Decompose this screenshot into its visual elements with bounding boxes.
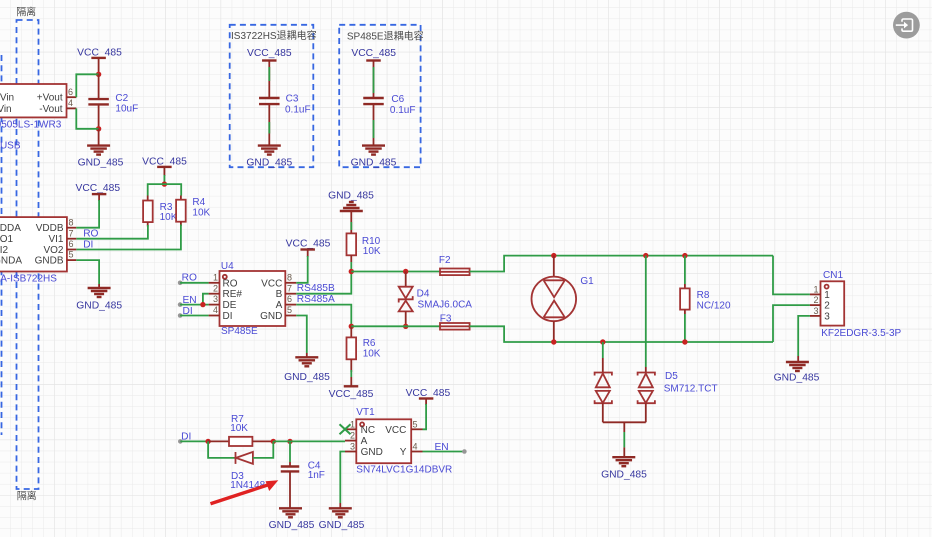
svg-text:VO2: VO2: [43, 245, 63, 256]
connector CN1 KF2EDGR-3.5-3P: [821, 270, 902, 339]
resistor R10: [347, 211, 381, 262]
wire F3 to bottom bus: [470, 326, 773, 342]
svg-text:3: 3: [350, 442, 355, 452]
wire C6 to ground: [373, 104, 375, 146]
svg-text:R6: R6: [363, 338, 376, 349]
B0505 pin 6 +Vout: [67, 87, 77, 97]
label 隔离 top: [16, 6, 36, 19]
fuse F3: [440, 314, 470, 330]
svg-text:1N4148: 1N4148: [230, 480, 265, 491]
label USB: [0, 141, 21, 152]
junction EN tie: [200, 302, 205, 307]
svg-text:GND_485: GND_485: [601, 470, 647, 481]
svg-text:D5: D5: [665, 371, 678, 382]
svg-text:GND: GND: [361, 447, 383, 458]
transceiver U4 SP485E: [220, 261, 286, 337]
junction D4 bottom: [403, 324, 408, 329]
junction D5 right chain top: [643, 253, 648, 258]
svg-text:10K: 10K: [363, 349, 381, 360]
svg-text:2: 2: [824, 301, 830, 312]
wire VCC to C3: [268, 66, 270, 98]
label SP485E退耦电容: [347, 30, 424, 43]
svg-text:10K: 10K: [192, 207, 210, 218]
capacitor C6: [363, 94, 415, 116]
svg-text:GNDB: GNDB: [35, 256, 64, 267]
wire U4 B to RS485B: [296, 272, 351, 294]
svg-text:DI: DI: [223, 311, 233, 322]
power flag VCC_485 (C6): [351, 48, 396, 66]
isolation boundary dashed box: [17, 20, 39, 489]
svg-text:VCC_485: VCC_485: [329, 389, 374, 400]
svg-text:3: 3: [824, 311, 830, 322]
CN1 pin stubs and numbers: [810, 284, 821, 316]
fuse F2: [439, 255, 470, 275]
svg-text:+Vin: +Vin: [0, 93, 14, 104]
svg-text:8: 8: [69, 217, 74, 227]
dashed box IS3722HS decoupling: [230, 25, 314, 167]
annotation red arrow: [211, 480, 279, 504]
wire R4 bottom to DI net: [76, 225, 181, 250]
power flag VCC_485 (C2): [77, 48, 122, 71]
B0505 pin 4 -Vout: [67, 98, 77, 108]
svg-text:4: 4: [68, 98, 73, 108]
wire RO to U4 pin1: [178, 281, 209, 286]
svg-text:10K: 10K: [160, 212, 178, 223]
TVS array D5 SM712.TCT: [595, 256, 718, 423]
isolator pin 5 GNDB: [67, 250, 76, 260]
svg-text:3: 3: [213, 294, 218, 304]
svg-text:VI1: VI1: [48, 234, 63, 245]
svg-text:GND_485: GND_485: [284, 372, 330, 383]
svg-text:RO: RO: [223, 278, 238, 289]
wire RS485A line: [351, 325, 440, 327]
svg-text:D4: D4: [417, 289, 430, 300]
net label EN (VT1 output): [435, 442, 449, 453]
junction D4 top: [403, 269, 408, 274]
svg-text:A: A: [361, 436, 368, 447]
junction VCC R3 R4: [162, 181, 167, 186]
isolator pin 6 VO2: [67, 239, 76, 249]
svg-text:SN74LVC1G14DBVR: SN74LVC1G14DBVR: [356, 464, 452, 475]
svg-text:VCC: VCC: [385, 425, 406, 436]
junction RS485A R6: [349, 324, 354, 329]
net label DI (isolator): [83, 239, 93, 250]
junction C4 node: [287, 439, 292, 444]
isolator pin 7 VI1: [67, 228, 76, 238]
svg-text:0.1uF: 0.1uF: [285, 104, 311, 115]
svg-text:7: 7: [287, 283, 292, 293]
wire C3 to ground: [268, 104, 270, 146]
svg-text:DI: DI: [83, 239, 93, 250]
wire VT1 Y to EN: [423, 449, 467, 454]
wire F2 to top bus: [470, 256, 773, 272]
partial dashed box left edge: [1, 55, 3, 435]
wire U4 GND pin5: [296, 316, 307, 358]
svg-text:8: 8: [287, 272, 292, 282]
svg-text:GND_485: GND_485: [269, 520, 315, 531]
svg-text:VI2: VI2: [0, 245, 9, 256]
ground GND_485 (C2): [78, 146, 124, 169]
net label RO (U4): [182, 273, 197, 284]
no-connect flag VT1 pin1: [340, 424, 351, 434]
svg-text:4: 4: [213, 305, 218, 315]
svg-text:IS3722HS退耦电容: IS3722HS退耦电容: [231, 29, 317, 42]
svg-text:VCC_485: VCC_485: [247, 48, 292, 59]
ground GND_485 (C4): [269, 508, 315, 531]
svg-text:6: 6: [68, 87, 73, 97]
svg-text:C2: C2: [115, 93, 128, 104]
svg-text:DE: DE: [223, 300, 237, 311]
ground GND_485 (U4): [284, 357, 330, 383]
svg-text:10uF: 10uF: [115, 104, 138, 115]
isolator pin 8 VDDB: [67, 217, 76, 227]
wire VT1 GND pin3 to ground: [340, 452, 345, 509]
svg-text:GND: GND: [260, 311, 282, 322]
inverter VT1 SN74LVC1G14DBVR: [356, 407, 452, 475]
wire DI to U4 pin4: [178, 313, 209, 318]
ground GND_485 (D5): [601, 457, 647, 480]
svg-text:1: 1: [813, 284, 818, 294]
resistor R8: [680, 256, 731, 342]
svg-text:GND_485: GND_485: [246, 158, 292, 169]
U4 pin numbers right 8 7 6 5: [285, 272, 296, 315]
wire R3 bottom to RO net: [76, 225, 148, 239]
svg-text:VCC_485: VCC_485: [75, 183, 120, 194]
wire bottom bus to CN1 pin2: [773, 305, 810, 342]
svg-text:GND_485: GND_485: [774, 372, 820, 383]
svg-text:+Vout: +Vout: [37, 93, 63, 104]
svg-text:7: 7: [69, 228, 74, 238]
resistor R4: [176, 196, 210, 227]
svg-text:RS485B: RS485B: [297, 283, 335, 294]
junction R8 bottom: [682, 339, 687, 344]
net label DI (bottom): [181, 431, 191, 442]
wire R7 to VT1 A: [273, 440, 345, 442]
svg-text:GND_485: GND_485: [76, 301, 122, 312]
svg-text:5: 5: [287, 305, 292, 315]
svg-text:5: 5: [413, 419, 418, 429]
svg-text:0.1uF: 0.1uF: [390, 105, 416, 116]
junction R7 left: [205, 439, 210, 444]
svg-text:VDDA: VDDA: [0, 223, 21, 234]
svg-text:C6: C6: [391, 94, 404, 105]
wire -Vout to C2 bottom node: [76, 108, 98, 128]
svg-text:VDDB: VDDB: [36, 223, 64, 234]
svg-text:VCC_485: VCC_485: [351, 48, 396, 59]
wire +Vout to C2 top node: [76, 74, 98, 97]
svg-text:2: 2: [350, 431, 355, 441]
wire VCC to C6: [373, 66, 375, 98]
exit button icon: [893, 12, 920, 39]
svg-text:1: 1: [824, 290, 830, 301]
net label RS485B: [297, 283, 335, 294]
svg-text:VT1: VT1: [356, 407, 375, 418]
svg-text:GNDA: GNDA: [0, 256, 22, 267]
wire node to R3 and R4 tops: [148, 184, 182, 195]
wire C2 bottom to ground: [98, 129, 100, 146]
ground GND_485 (C6): [351, 146, 397, 169]
svg-text:4: 4: [413, 442, 418, 452]
svg-text:1nF: 1nF: [308, 470, 325, 481]
svg-text:2: 2: [813, 295, 818, 305]
svg-text:SP485E退耦电容: SP485E退耦电容: [347, 30, 424, 43]
svg-text:A: A: [276, 300, 283, 311]
svg-text:GND_485: GND_485: [319, 520, 365, 531]
net label RO (isolator): [83, 228, 98, 239]
net label DI (U4): [183, 306, 193, 317]
resistor R3: [143, 196, 178, 227]
svg-text:1: 1: [350, 419, 355, 429]
dashed box SP485E decoupling: [339, 25, 420, 167]
svg-text:VCC: VCC: [261, 278, 282, 289]
svg-text:3: 3: [813, 306, 818, 316]
junction RS485B R10: [349, 269, 354, 274]
svg-text:R8: R8: [697, 290, 710, 301]
power module B0505LS-1WR3: [0, 84, 67, 131]
net label EN (U4): [183, 295, 197, 306]
svg-text:VO1: VO1: [0, 234, 14, 245]
resistor R6: [347, 326, 381, 386]
power flag VCC_485 (VT1): [406, 388, 451, 405]
ground GND_485 (CN1): [774, 362, 820, 383]
svg-text:USB: USB: [0, 141, 21, 152]
U4 pin numbers left 1 2 3 4: [209, 272, 220, 315]
TVS diode D4 SMAJ6.0CA: [399, 272, 473, 327]
svg-text:SP485E: SP485E: [221, 326, 258, 337]
junction G1 top: [551, 253, 556, 258]
svg-text:6: 6: [287, 294, 292, 304]
svg-text:B: B: [276, 289, 283, 300]
svg-text:RS485A: RS485A: [297, 294, 335, 305]
resistor R7: [208, 414, 273, 446]
wire isolator GNDB to ground: [76, 260, 99, 288]
surge arrester G1: [532, 256, 595, 342]
svg-text:SMAJ6.0CA: SMAJ6.0CA: [418, 300, 473, 311]
label IS3722HS退耦电容: [231, 29, 317, 42]
power flag VCC_485 (isolator): [75, 183, 120, 201]
svg-text:隔离: 隔离: [17, 490, 37, 503]
capacitor C3: [259, 93, 311, 115]
wire DI to R7: [178, 439, 208, 444]
svg-text:1: 1: [213, 272, 218, 282]
wire R10 to RS485B: [350, 262, 352, 272]
svg-text:5: 5: [69, 250, 74, 260]
power flag VCC_485 (U4): [286, 239, 331, 257]
junction R7 right: [271, 439, 276, 444]
svg-text:VCC_485: VCC_485: [286, 239, 331, 250]
wire U4 A to RS485A: [296, 305, 351, 327]
power flag VCC_485 (R3 R4): [142, 157, 187, 177]
svg-text:-Vout: -Vout: [39, 104, 63, 115]
svg-text:GND_485: GND_485: [78, 158, 124, 169]
wire top bus to CN1 pin1: [773, 256, 810, 295]
wire D5 to ground: [623, 422, 625, 457]
svg-text:F2: F2: [439, 255, 451, 266]
svg-text:CA-ISB722HS: CA-ISB722HS: [0, 274, 57, 285]
svg-text:GND_485: GND_485: [328, 191, 374, 202]
junction C2 top: [96, 72, 101, 77]
svg-text:KF2EDGR-3.5-3P: KF2EDGR-3.5-3P: [821, 328, 901, 339]
wire isolator VDDB to VCC: [76, 200, 99, 228]
svg-text:Y: Y: [400, 447, 407, 458]
svg-text:2: 2: [213, 283, 218, 293]
svg-text:B0505LS-1WR3: B0505LS-1WR3: [0, 120, 62, 131]
capacitor C2: [88, 74, 138, 129]
svg-text:C3: C3: [286, 93, 299, 104]
ground GND_485 (isolator): [76, 288, 122, 312]
ground GND_485 (C3): [246, 146, 292, 169]
ground GND_485 (VT1): [319, 508, 365, 531]
capacitor C4: [281, 441, 325, 508]
ground GND_485 (R10 top): [328, 191, 374, 211]
wire U4 VCC pin8: [296, 256, 307, 283]
junction G1 bottom: [551, 339, 556, 344]
svg-text:RO: RO: [83, 228, 98, 239]
junction R8 top: [682, 253, 687, 258]
svg-text:10K: 10K: [230, 423, 248, 434]
label 隔离 bottom: [17, 490, 37, 503]
power flag VCC_485 (C3): [247, 48, 292, 66]
svg-text:6: 6: [69, 239, 74, 249]
wire VT1 VCC pin5: [423, 404, 427, 429]
power flag VCC_485 (R6 bottom): [329, 386, 374, 400]
svg-text:RE#: RE#: [223, 289, 243, 300]
wire EN to U4 pins 2 3: [178, 294, 209, 307]
wire VCC to R3 R4 node: [163, 175, 165, 184]
net label RS485A: [297, 294, 335, 305]
svg-text:-Vin: -Vin: [0, 104, 12, 115]
svg-text:NC: NC: [361, 425, 375, 436]
svg-text:SM712.TCT: SM712.TCT: [664, 384, 718, 395]
svg-text:GND_485: GND_485: [351, 158, 397, 169]
junction C2 bottom: [96, 126, 101, 131]
wire VCC to C2 top: [98, 71, 100, 74]
svg-text:NC/120: NC/120: [697, 300, 731, 311]
wire RS485B line: [351, 271, 440, 273]
diode D3 1N4148: [208, 441, 273, 491]
svg-text:10K: 10K: [363, 246, 381, 257]
svg-text:CN1: CN1: [823, 270, 843, 281]
wire CN1 pin3 to ground: [798, 316, 810, 362]
digital isolator CA-ISB722HS: [0, 217, 67, 284]
junction D5 left chain: [600, 339, 605, 344]
VT1 pin stubs and numbers: [345, 419, 423, 451]
svg-text:G1: G1: [580, 276, 594, 287]
svg-text:隔离: 隔离: [16, 6, 36, 19]
